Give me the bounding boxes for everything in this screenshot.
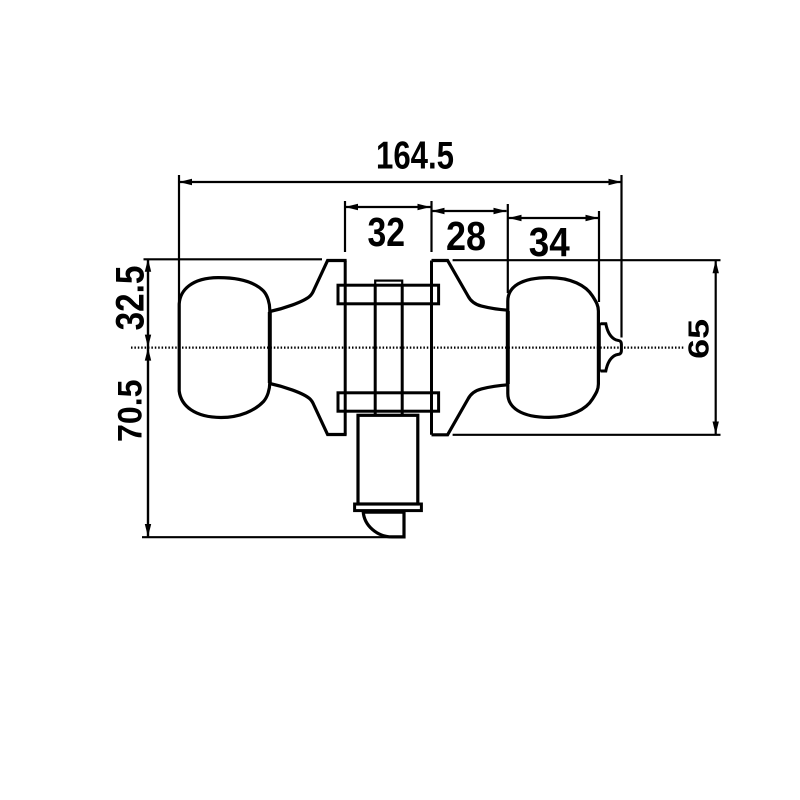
left neck lower — [270, 384, 347, 435]
dimension 34 line — [509, 215, 599, 221]
extension line 34 right — [598, 211, 600, 302]
left neck upper — [270, 261, 347, 312]
svg-text:32.5: 32.5 — [109, 266, 153, 331]
extension line 164.5 right — [620, 175, 622, 338]
latch bolt top edge (bold) — [363, 510, 404, 514]
svg-text:34: 34 — [529, 219, 570, 265]
right neck lower — [432, 385, 508, 435]
dimension 70.5 label — [112, 379, 150, 442]
centerline — [131, 347, 684, 349]
right knob — [508, 278, 599, 418]
extension line 65 top — [453, 259, 721, 261]
left knob face (bold) — [268, 312, 272, 383]
svg-text:70.5: 70.5 — [112, 379, 150, 442]
right knob inner face (bold) — [506, 311, 510, 384]
dimension 34 label — [529, 219, 570, 265]
right knob outer face bar (bold) — [597, 323, 601, 372]
dimension 164.5 line — [179, 179, 622, 185]
extension line 32/28 shared — [430, 201, 432, 252]
spindle shaft left line — [374, 285, 377, 415]
left knob — [179, 278, 270, 418]
bottom rose plate — [338, 393, 439, 411]
extension line 28/34 shared — [507, 204, 509, 293]
extension line 32 left — [344, 201, 346, 252]
dimension 164.5 label — [376, 135, 454, 178]
svg-text:32: 32 — [367, 209, 405, 255]
dimension 65 line — [713, 260, 719, 434]
right neck upper — [432, 261, 508, 311]
dimension 32.5 label — [109, 266, 153, 331]
dimension 32 label — [367, 209, 405, 255]
top rose plate — [338, 285, 439, 304]
left rose face — [344, 261, 347, 435]
svg-text:164.5: 164.5 — [376, 135, 454, 178]
spindle cap — [375, 281, 402, 286]
dimension 32.5/70.5 line — [145, 259, 151, 537]
extension line 164.5 left — [178, 175, 180, 301]
dimension 28 label — [446, 213, 486, 259]
knob tip button — [601, 324, 622, 371]
svg-text:65: 65 — [684, 319, 716, 359]
extension line 70.5 bottom — [142, 536, 392, 538]
dimension 28 line — [432, 208, 507, 214]
dimension 32 line — [345, 204, 431, 210]
svg-text:28: 28 — [446, 213, 486, 259]
right rose face — [430, 261, 433, 435]
extension line 65 bottom — [453, 434, 721, 436]
extension line 32.5 top — [144, 258, 323, 260]
latch bolt — [363, 512, 404, 537]
latch tube — [358, 415, 418, 504]
latch collar — [355, 504, 422, 511]
dimension 65 label — [684, 319, 716, 359]
spindle shaft right line — [401, 285, 404, 415]
